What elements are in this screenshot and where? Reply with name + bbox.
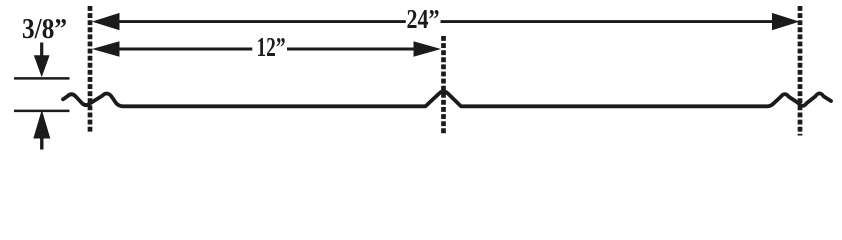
svg-text:3/8”: 3/8” — [22, 14, 67, 45]
extension line left (dashed) — [88, 6, 93, 132]
svg-text:12”: 12” — [257, 32, 286, 62]
panel profile: left lap wave, flat pan, center rib, flat pan, right lap wave — [63, 92, 831, 107]
dimension line 24in left segment — [114, 20, 406, 23]
arrow 3/8 up head — [33, 110, 50, 139]
arrow 3/8 down shaft — [40, 43, 43, 58]
arrow 3/8 up shaft — [40, 137, 43, 150]
extension line middle (dashed) — [441, 36, 446, 134]
dimension line 12in right segment — [287, 48, 419, 51]
tick line upper (rib top reference) — [14, 77, 70, 80]
arrowhead 24in right — [772, 13, 800, 30]
dimension line 24in right segment — [441, 20, 779, 23]
dimension line 12in left segment — [114, 48, 252, 51]
svg-text:24”: 24” — [407, 4, 440, 34]
arrowhead 12in left — [92, 41, 120, 57]
extension line right (dashed) — [798, 6, 803, 136]
arrowhead 12in right — [414, 41, 442, 57]
tick line lower (panel base reference) — [14, 110, 70, 113]
arrowhead 24in left — [92, 13, 120, 30]
arrow 3/8 down head — [34, 55, 50, 77]
